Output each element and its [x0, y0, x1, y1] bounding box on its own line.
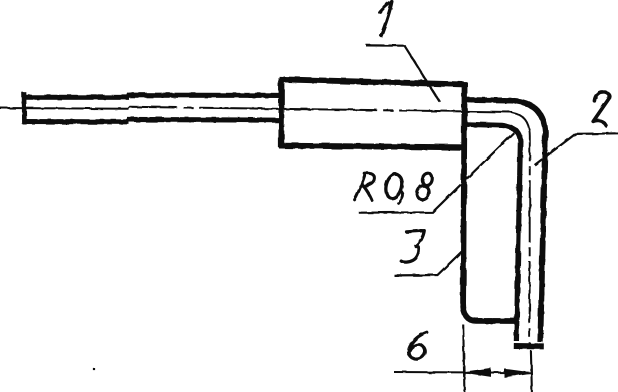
leader line to label 3 [394, 252, 462, 276]
label 1 [379, 2, 392, 36]
block part 1: bottom edge [279, 146, 467, 148]
dimension arrowhead right [505, 369, 531, 377]
dimension arrowhead left [464, 369, 491, 377]
label 3 [401, 231, 424, 263]
part 3 sheath outline (block right edge continuing down, corner, bottom lip) [463, 82, 516, 321]
leader line to label R0,8 [359, 129, 518, 213]
stem rod left end cap [22, 92, 27, 124]
label R0,8 [355, 172, 434, 203]
leader line to label 1 [366, 45, 440, 101]
stem rod top edge [23, 95, 282, 97]
stem rod bottom edge [23, 119, 282, 122]
dimension line for 6 [394, 371, 531, 374]
label 2 [593, 92, 610, 125]
part 2 bent rod: bottom end cap [514, 343, 544, 349]
leader line to label 2 [535, 133, 618, 165]
block part 1: top edge [279, 79, 467, 84]
centerline of bend (arc + vertical axis of part 2) [508, 112, 530, 346]
stray scan speck [93, 368, 95, 370]
part 2 bent rod: bottom edge, inner bend, left edge [466, 124, 520, 341]
block part 1: left edge [278, 78, 284, 148]
extension line right (below part 2 rod) [531, 351, 532, 392]
extension line left (from part 3 lip) [463, 325, 464, 392]
centerline (horizontal axis, dash-dot) [0, 107, 512, 112]
dimension label 6 [409, 332, 427, 359]
part 2 bent rod: top edge, outer bend, right edge [466, 100, 545, 342]
